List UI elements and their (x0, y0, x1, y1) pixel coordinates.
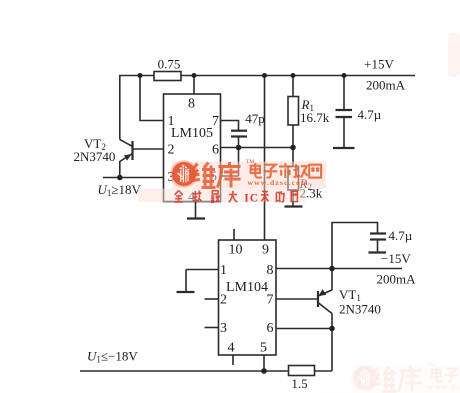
svg-text:2: 2 (220, 293, 227, 308)
svg-text:8: 8 (188, 97, 195, 112)
svg-text:4: 4 (228, 341, 235, 356)
svg-text:47p: 47p (245, 111, 265, 126)
svg-text:2: 2 (168, 143, 175, 158)
svg-text:1.5: 1.5 (291, 376, 307, 391)
svg-text:4.7µ: 4.7µ (358, 107, 382, 122)
svg-text:TM: TM (246, 159, 254, 165)
svg-text:−15V: −15V (381, 251, 411, 266)
svg-text:LM105: LM105 (171, 126, 213, 141)
svg-text:1: 1 (220, 263, 227, 278)
svg-text:7: 7 (267, 293, 274, 308)
svg-text:4.7µ: 4.7µ (389, 228, 413, 243)
svg-text:U1≤−18V: U1≤−18V (87, 349, 138, 365)
svg-text:10: 10 (229, 243, 243, 258)
svg-text:I: I (244, 193, 249, 205)
svg-text:6: 6 (212, 143, 219, 158)
svg-text:C: C (250, 193, 258, 205)
svg-text:LM104: LM104 (226, 280, 268, 295)
svg-text:+15V: +15V (364, 57, 394, 72)
svg-text:3: 3 (220, 321, 227, 336)
svg-text:2N3740: 2N3740 (339, 302, 381, 317)
svg-text:0.75: 0.75 (158, 57, 181, 72)
svg-text:200mA: 200mA (377, 272, 417, 287)
svg-text:7: 7 (212, 114, 219, 129)
svg-text:8: 8 (267, 263, 274, 278)
svg-text:6: 6 (267, 321, 274, 336)
svg-text:www.dzsc.com: www.dzsc.com (248, 178, 309, 187)
svg-text:9: 9 (262, 243, 269, 258)
svg-text:200mA: 200mA (366, 78, 406, 93)
svg-text:16.7k: 16.7k (300, 110, 330, 125)
svg-text:U1≥18V: U1≥18V (98, 182, 142, 198)
svg-text:2N3740: 2N3740 (74, 149, 116, 164)
svg-text:5: 5 (260, 341, 267, 356)
